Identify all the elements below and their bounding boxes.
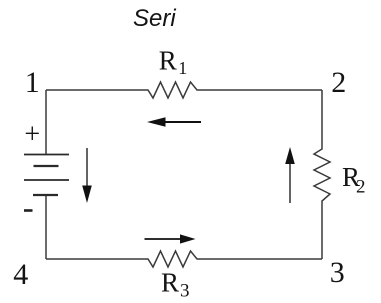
svg-text:4: 4 (13, 258, 28, 291)
svg-text:2: 2 (331, 66, 346, 99)
svg-text:3: 3 (180, 281, 190, 302)
svg-text:1: 1 (25, 66, 40, 99)
svg-text:Seri: Seri (133, 5, 176, 32)
svg-text:1: 1 (178, 58, 187, 78)
svg-text:R: R (159, 46, 177, 76)
svg-text:3: 3 (330, 256, 345, 289)
svg-text:2: 2 (356, 177, 366, 198)
svg-text:R: R (161, 268, 179, 298)
svg-text:+: + (24, 119, 40, 150)
